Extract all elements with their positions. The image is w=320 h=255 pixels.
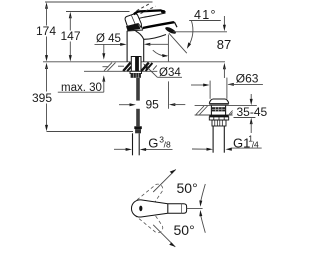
- svg-text:395: 395: [32, 91, 52, 105]
- svg-text:Ø 45: Ø 45: [96, 33, 121, 45]
- svg-text:95: 95: [146, 98, 160, 112]
- svg-text:147: 147: [61, 29, 81, 43]
- svg-text:41°: 41°: [194, 8, 217, 22]
- svg-text:35-45: 35-45: [237, 105, 268, 119]
- svg-text:50°: 50°: [174, 222, 195, 238]
- svg-text:/8: /8: [164, 140, 171, 150]
- svg-text:Ø63: Ø63: [236, 72, 259, 86]
- svg-text:50°: 50°: [177, 180, 198, 196]
- svg-text:174: 174: [36, 24, 56, 38]
- svg-text:G: G: [148, 136, 158, 151]
- svg-text:87: 87: [217, 37, 231, 52]
